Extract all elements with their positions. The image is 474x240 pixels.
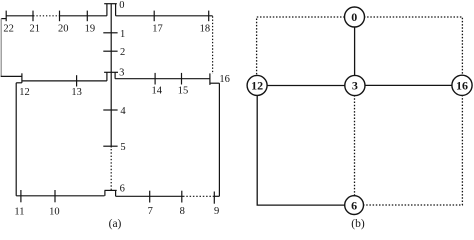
node 20 tick [59, 11, 61, 22]
svg-text:14: 14 [151, 86, 162, 97]
node 19 tick [86, 11, 88, 22]
wire jog 12 to left loop [16, 82, 22, 84]
wire jog left of node 0 [106, 4, 108, 16]
node 15 tick [181, 73, 183, 85]
svg-text:15: 15 [178, 86, 189, 97]
node 7 tick [149, 191, 151, 203]
svg-text:22: 22 [3, 23, 14, 34]
node 18 tick [208, 11, 210, 22]
wire b dashed 0-corner-16 [354, 17, 462, 85]
wire b solid 12-corner-6 [257, 86, 354, 206]
svg-text:17: 17 [152, 23, 163, 34]
wire jog 16 to right loop [210, 82, 220, 84]
part (b) graph [257, 17, 463, 205]
wire branch 8-9 dotted [183, 195, 214, 197]
node 13 tick [76, 75, 78, 86]
svg-text:2: 2 [120, 47, 125, 58]
node 3 bus bar [104, 71, 118, 73]
wire left loop vertical [15, 83, 17, 196]
wire jog right of node 3 [114, 72, 116, 78]
wire b solid 12-3 [257, 85, 355, 87]
wire line A 22drop to 12 [1, 75, 22, 77]
node 14 tick [154, 73, 156, 85]
svg-text:(b): (b) [351, 218, 365, 230]
wire branch 17-18 [116, 15, 213, 17]
node b 3 circle [345, 75, 365, 95]
wire jog below node 22 [1, 18, 6, 20]
svg-text:11: 11 [14, 207, 24, 218]
wire branch 19-22 solid part right [59, 15, 107, 17]
node 16 tick [209, 73, 211, 85]
wire jog left of node 6 [104, 190, 106, 195]
wire b solid 0-3 [354, 17, 356, 86]
wire b dashed 16-corner-6 [354, 85, 462, 205]
svg-text:7: 7 [148, 206, 153, 217]
svg-text:4: 4 [120, 106, 126, 117]
wire main feeder dotted 5-6 [110, 149, 112, 190]
node 4 tick [103, 109, 117, 111]
svg-text:1: 1 [120, 29, 125, 40]
wire jog right of node 0 [115, 4, 117, 16]
labels part (a) [3, 0, 230, 230]
wire branch 12-13 [22, 80, 107, 82]
node 1 tick [103, 32, 117, 34]
wire right loop vertical 16-9 [218, 83, 220, 196]
svg-text:(a): (a) [109, 218, 122, 230]
node 9 tick [213, 192, 215, 204]
svg-text:3: 3 [352, 79, 358, 93]
node 10 tick [54, 190, 56, 202]
svg-text:16: 16 [456, 79, 468, 93]
node 17 tick [153, 11, 155, 22]
wire main feeder vertical 0-5 [110, 4, 112, 148]
svg-text:16: 16 [219, 74, 230, 85]
svg-text:12: 12 [19, 87, 30, 98]
wire b solid 3-16 [355, 84, 462, 86]
svg-text:10: 10 [49, 207, 60, 218]
node 21 tick [32, 11, 34, 22]
node 5 tick [103, 145, 117, 147]
wire branch 19-22 solid part left [6, 15, 33, 17]
svg-text:21: 21 [30, 23, 41, 34]
svg-text:0: 0 [119, 0, 124, 11]
svg-text:6: 6 [351, 198, 357, 212]
node b 0 circle [345, 7, 365, 27]
wire bottom-left branch 10-11 [16, 195, 104, 197]
node b 16 circle [452, 75, 472, 95]
svg-text:18: 18 [200, 23, 211, 34]
wire vertical 22 to 12 (gray) [0, 19, 2, 77]
svg-text:20: 20 [58, 23, 69, 34]
svg-text:5: 5 [120, 142, 125, 153]
wire b dashed 0-corner-12 [257, 17, 355, 85]
wire jog right of node 6 [115, 190, 117, 196]
svg-text:8: 8 [180, 206, 185, 217]
wire branch 19-22 dotted 20-21 [33, 15, 59, 17]
node b 6 circle [345, 196, 364, 215]
wire b dashed 3-6 [354, 86, 356, 206]
wire tie 18-16 dashed [212, 16, 214, 74]
svg-text:12: 12 [251, 79, 263, 93]
node 2 tick [103, 50, 117, 52]
wire 9 to corner [214, 195, 219, 197]
node 0 bus bar [104, 3, 117, 5]
svg-text:13: 13 [71, 87, 82, 98]
node 11 tick [20, 190, 22, 202]
wire branch 7-8 solid [116, 195, 183, 197]
node 12 tick [21, 73, 23, 83]
wire branch 14-16 [115, 78, 210, 80]
svg-text:3: 3 [119, 68, 124, 79]
svg-text:9: 9 [214, 206, 219, 217]
svg-text:19: 19 [85, 23, 96, 34]
node 22 tick [5, 11, 7, 22]
node 8 tick [181, 191, 183, 203]
node 6 bus bar [105, 189, 117, 191]
svg-text:0: 0 [351, 10, 357, 24]
node b 12 circle [247, 75, 267, 95]
wire jog left of node 3 [106, 72, 108, 81]
svg-text:6: 6 [120, 184, 125, 195]
